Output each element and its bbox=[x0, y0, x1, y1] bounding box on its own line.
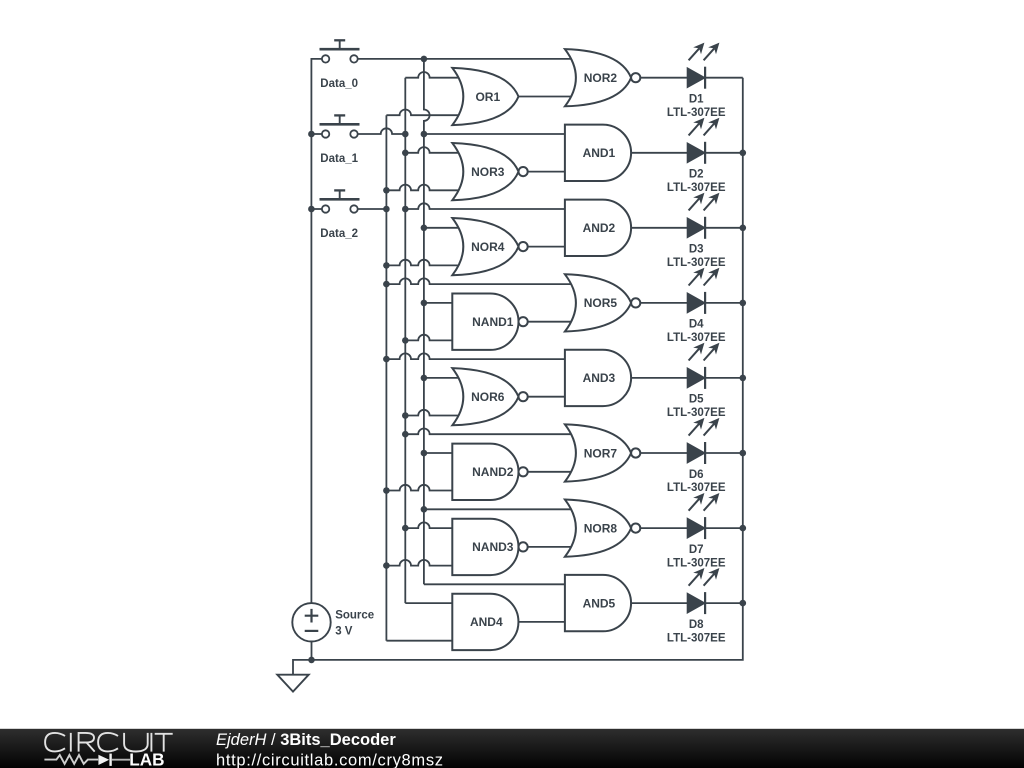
wire: Data_1 branch to NAND3 input 1 bbox=[405, 522, 454, 528]
svg-text:Source: Source bbox=[335, 610, 374, 622]
pushbutton Data_1 bbox=[320, 115, 360, 137]
wire: right rail and bottom rail to source bbox=[312, 78, 743, 660]
wire: Data_0 net from button to NOR2 input 1 bbox=[358, 58, 580, 60]
svg-text:AND1: AND1 bbox=[583, 146, 616, 160]
wire: left rail stub to Data_1 button bbox=[311, 133, 322, 135]
wire: Data_1 branch to NOR6 input 2 bbox=[405, 410, 466, 416]
wire: NOR6 output to AND3 input 2 bbox=[528, 396, 567, 398]
svg-text:LTL-307EE: LTL-307EE bbox=[667, 632, 726, 644]
gate NAND3 bbox=[452, 519, 527, 575]
wire: Data_2 branch to NAND3 input 2 bbox=[386, 560, 454, 566]
svg-text:LTL-307EE: LTL-307EE bbox=[667, 482, 726, 494]
wire: Data_2 branch to NOR4 input 2 bbox=[386, 260, 466, 266]
svg-text:LAB: LAB bbox=[129, 749, 164, 768]
junction: right rail / LED D5 cathode bbox=[740, 375, 747, 382]
wire: Data_2 branch to NOR3 input 2 bbox=[386, 185, 466, 191]
wire: vertical bus B (Data_1) bbox=[404, 78, 406, 603]
svg-text:NOR6: NOR6 bbox=[471, 390, 505, 404]
gate OR1 bbox=[452, 68, 518, 125]
LED D4 bbox=[687, 268, 719, 314]
svg-text:NOR3: NOR3 bbox=[471, 165, 505, 179]
junction: bus B tap AND2 input 1 bbox=[402, 206, 409, 213]
gate NAND1 bbox=[452, 294, 527, 350]
wire: source bottom lead to ground junction bbox=[311, 642, 313, 660]
svg-text:D3: D3 bbox=[689, 244, 704, 256]
LED D5 bbox=[687, 343, 719, 389]
gate AND1 bbox=[565, 125, 631, 181]
wire: Data_2 net from button to bus A bbox=[358, 208, 387, 210]
wire: Data_1 branch to NOR3 input 1 bbox=[405, 147, 466, 153]
wire: NAND1 output to NOR5 input 2 bbox=[528, 321, 580, 323]
junction: bus A tap Data_2 feed bbox=[383, 206, 390, 213]
wire: Data_1 branch to OR1 input 1 (bus B top bend) bbox=[405, 72, 466, 78]
svg-text:Data_1: Data_1 bbox=[320, 153, 358, 165]
wire: Data_0 branch to NOR8 input 1 bbox=[424, 508, 580, 510]
logo resistor symbol bbox=[44, 755, 98, 764]
junction: right rail / LED D8 cathode bbox=[740, 600, 747, 607]
svg-text:AND3: AND3 bbox=[583, 371, 616, 385]
wire: ground branch bbox=[293, 660, 312, 675]
LED D3 bbox=[687, 193, 719, 239]
gate NOR4 bbox=[452, 218, 527, 275]
wire: LED D8 cathode to right rail bbox=[705, 602, 743, 604]
ground symbol bbox=[277, 675, 308, 692]
junction: right rail / LED D4 cathode bbox=[740, 300, 747, 307]
svg-text:NAND3: NAND3 bbox=[472, 540, 514, 554]
wire: Data_1 branch to AND2 input 1 bbox=[405, 203, 567, 209]
svg-text:D8: D8 bbox=[689, 619, 704, 631]
voltage source Source 3 V bbox=[292, 603, 330, 641]
wire: Data_0 branch to NAND1 input 1 bbox=[424, 302, 454, 304]
junction: right rail / LED D2 cathode bbox=[740, 150, 747, 157]
svg-text:D1: D1 bbox=[689, 94, 704, 106]
wire: NOR3 output to AND1 input 2 bbox=[528, 171, 567, 173]
junction: right rail / LED D7 cathode bbox=[740, 525, 747, 532]
svg-text:D2: D2 bbox=[689, 169, 704, 181]
wire: AND3 output to LED D5 anode bbox=[630, 377, 687, 379]
wire: AND4 output to AND5 input 2 bbox=[517, 621, 567, 623]
LED D6 bbox=[687, 418, 719, 464]
LED D7 bbox=[687, 493, 719, 539]
svg-text:Data_2: Data_2 bbox=[320, 228, 358, 240]
gate NAND2 bbox=[452, 444, 527, 500]
wire: NOR5 output to LED D4 anode bbox=[640, 302, 687, 304]
junction: bus C tap AND1 input 1 bbox=[421, 131, 428, 138]
wire: LED D7 cathode to right rail bbox=[705, 527, 743, 529]
wire: Data_2 branch to AND4 input 2 (bus A bottom bend) bbox=[386, 640, 454, 642]
junction: bus C tap NAND1 input 1 bbox=[421, 300, 428, 307]
junction: right rail / LED D6 cathode bbox=[740, 450, 747, 457]
junction: source output / bottom rail bbox=[308, 657, 315, 664]
wire: AND1 output to LED D2 anode bbox=[630, 152, 687, 154]
junction: bus A tap NOR4 input 2 bbox=[383, 262, 390, 269]
logo diode symbol bbox=[98, 755, 109, 765]
wire: NOR2 output to LED D1 anode bbox=[640, 77, 687, 79]
svg-text:Data_0: Data_0 bbox=[320, 78, 358, 90]
wire: Data_1 branch to NAND1 input 2 bbox=[405, 335, 454, 341]
junction: bus B tap NOR3 input 1 bbox=[402, 150, 409, 157]
wire: Data_2 branch to AND3 input 1 bbox=[386, 353, 567, 359]
junction: bus B tap Data_1 feed bbox=[402, 131, 409, 138]
svg-text:http://circuitlab.com/cry8msz: http://circuitlab.com/cry8msz bbox=[216, 751, 443, 768]
wire: LED D4 cathode to right rail bbox=[705, 302, 743, 304]
gate AND4 bbox=[452, 594, 518, 650]
CircuitLab footer bar bbox=[0, 729, 1024, 768]
svg-text:D5: D5 bbox=[689, 394, 704, 406]
wire: OR1 output to NOR2 input 2 bbox=[517, 96, 581, 98]
wire: NOR7 output to LED D6 anode bbox=[640, 452, 687, 454]
gate NOR7 bbox=[565, 424, 640, 481]
svg-text:AND2: AND2 bbox=[583, 221, 616, 235]
svg-text:AND4: AND4 bbox=[470, 615, 503, 629]
junction: bus B tap NOR6 input 2 bbox=[402, 412, 409, 419]
junction: bus C tap NOR8 input 1 bbox=[421, 506, 428, 513]
svg-text:NOR4: NOR4 bbox=[471, 240, 505, 254]
junction: bus C tap NOR6 input 1 bbox=[421, 375, 428, 382]
svg-text:NOR7: NOR7 bbox=[584, 446, 618, 460]
junction: bus B tap NOR7 input 1 bbox=[402, 431, 409, 438]
junction: bus A tap AND3 input 1 bbox=[383, 356, 390, 363]
svg-text:LTL-307EE: LTL-307EE bbox=[667, 557, 726, 569]
svg-text:NAND2: NAND2 bbox=[472, 465, 514, 479]
junction: bus A tap NAND2 input 2 bbox=[383, 487, 390, 494]
junction: bus B tap NAND3 input 1 bbox=[402, 525, 409, 532]
pushbutton Data_0 bbox=[320, 40, 360, 62]
wire: LED D3 cathode to right rail bbox=[705, 227, 743, 229]
LED D8 bbox=[687, 568, 719, 614]
wire: Data_0 branch to NAND2 input 1 bbox=[424, 452, 454, 454]
wire: Data_0 branch to AND1 input 1 bbox=[424, 133, 567, 135]
wire: Data_0 branch to NOR4 input 1 bbox=[424, 227, 466, 229]
wire: Data_1 branch to NOR7 input 1 bbox=[405, 428, 580, 434]
junction: bus A tap NAND3 input 2 bbox=[383, 562, 390, 569]
wire: NAND3 output to NOR8 input 2 bbox=[528, 546, 580, 548]
wire: Data_2 branch to OR1 input 2 (bus A top bend) bbox=[386, 109, 466, 115]
gate NOR6 bbox=[452, 368, 527, 425]
wire: vertical bus C (Data_0) bbox=[424, 59, 430, 584]
gate NOR5 bbox=[565, 274, 640, 331]
wire: Data_2 branch to NOR5 input 1 bbox=[386, 278, 580, 284]
wire: LED D2 cathode to right rail bbox=[705, 152, 743, 154]
wire: Data_0 branch to AND5 input 1 (bus C bottom bend) bbox=[424, 583, 567, 585]
svg-text:D6: D6 bbox=[689, 469, 704, 481]
wire: Data_2 branch to NAND2 input 2 bbox=[386, 485, 454, 491]
junction: bus A tap NOR3 input 2 bbox=[383, 187, 390, 194]
gate AND5 bbox=[565, 575, 631, 631]
gate NOR3 bbox=[452, 143, 527, 200]
gate NOR2 bbox=[565, 49, 640, 106]
wire: Data_0 branch to NOR6 input 1 bbox=[424, 377, 466, 379]
wire: vertical bus A (Data_2) bbox=[385, 115, 387, 641]
junction: left rail / Data_1 button bbox=[308, 131, 315, 138]
svg-text:NOR5: NOR5 bbox=[584, 296, 618, 310]
svg-text:AND5: AND5 bbox=[583, 596, 616, 610]
junction: right rail / LED D3 cathode bbox=[740, 225, 747, 232]
pushbutton Data_2 bbox=[320, 190, 360, 212]
svg-text:LTL-307EE: LTL-307EE bbox=[667, 332, 726, 344]
junction: bus C tap NOR4 input 1 bbox=[421, 225, 428, 232]
svg-text:OR1: OR1 bbox=[475, 90, 500, 104]
junction: bus C tap NAND2 input 1 bbox=[421, 450, 428, 457]
svg-text:NAND1: NAND1 bbox=[472, 315, 514, 329]
wire: LED D6 cathode to right rail bbox=[705, 452, 743, 454]
wire: left rail stub to Data_2 button bbox=[311, 208, 322, 210]
wire: LED D1 cathode to right rail bbox=[705, 77, 743, 79]
svg-text:D4: D4 bbox=[689, 319, 704, 331]
LED D2 bbox=[687, 118, 719, 164]
svg-text:NOR2: NOR2 bbox=[584, 71, 618, 85]
LED D1 bbox=[687, 43, 719, 89]
svg-text:NOR8: NOR8 bbox=[584, 521, 618, 535]
wire: Data_1 net from button to bus B bbox=[358, 128, 406, 134]
gate AND3 bbox=[565, 350, 631, 406]
junction: bus A tap NOR5 input 1 bbox=[383, 281, 390, 288]
svg-text:EjderH / 3Bits_Decoder: EjderH / 3Bits_Decoder bbox=[216, 731, 396, 749]
junction: bus B tap NAND1 input 2 bbox=[402, 337, 409, 344]
junction: bus C tap Data_0 feed bbox=[421, 56, 428, 63]
svg-text:LTL-307EE: LTL-307EE bbox=[667, 107, 726, 119]
svg-text:3 V: 3 V bbox=[335, 626, 353, 638]
wire: NOR8 output to LED D7 anode bbox=[640, 527, 687, 529]
CircuitLab logo text CIRCUIT (hand-drawn thin letters) bbox=[45, 733, 173, 752]
svg-text:LTL-307EE: LTL-307EE bbox=[667, 407, 726, 419]
svg-text:LTL-307EE: LTL-307EE bbox=[667, 182, 726, 194]
wire: AND5 output to LED D8 anode bbox=[630, 602, 687, 604]
wire: NAND2 output to NOR7 input 2 bbox=[528, 471, 580, 473]
junction: left rail / Data_2 button bbox=[308, 206, 315, 213]
gate NOR8 bbox=[565, 500, 640, 557]
svg-text:LTL-307EE: LTL-307EE bbox=[667, 257, 726, 269]
gate AND2 bbox=[565, 200, 631, 256]
wire: Data_1 branch to AND4 input 1 (bus B bottom bend) bbox=[405, 602, 454, 604]
svg-text:D7: D7 bbox=[689, 544, 704, 556]
wire: NOR4 output to AND2 input 2 bbox=[528, 246, 567, 248]
wire: left power rail from Data_0 row down to source bbox=[311, 59, 322, 603]
wire: LED D5 cathode to right rail bbox=[705, 377, 743, 379]
wire: AND2 output to LED D3 anode bbox=[630, 227, 687, 229]
